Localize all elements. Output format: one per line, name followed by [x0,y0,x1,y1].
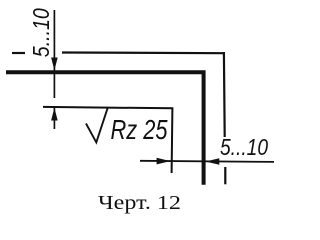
svg-text:Черт. 12: Черт. 12 [98,192,181,214]
svg-text:Rz 25: Rz 25 [111,114,169,145]
svg-text:5...10: 5...10 [220,134,268,160]
svg-text:5...10: 5...10 [28,8,54,57]
